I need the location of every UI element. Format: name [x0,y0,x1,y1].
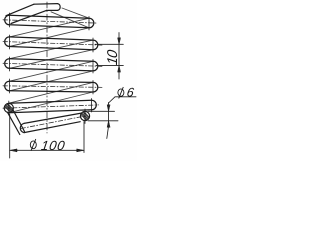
svg-text:100: 100 [40,138,66,153]
